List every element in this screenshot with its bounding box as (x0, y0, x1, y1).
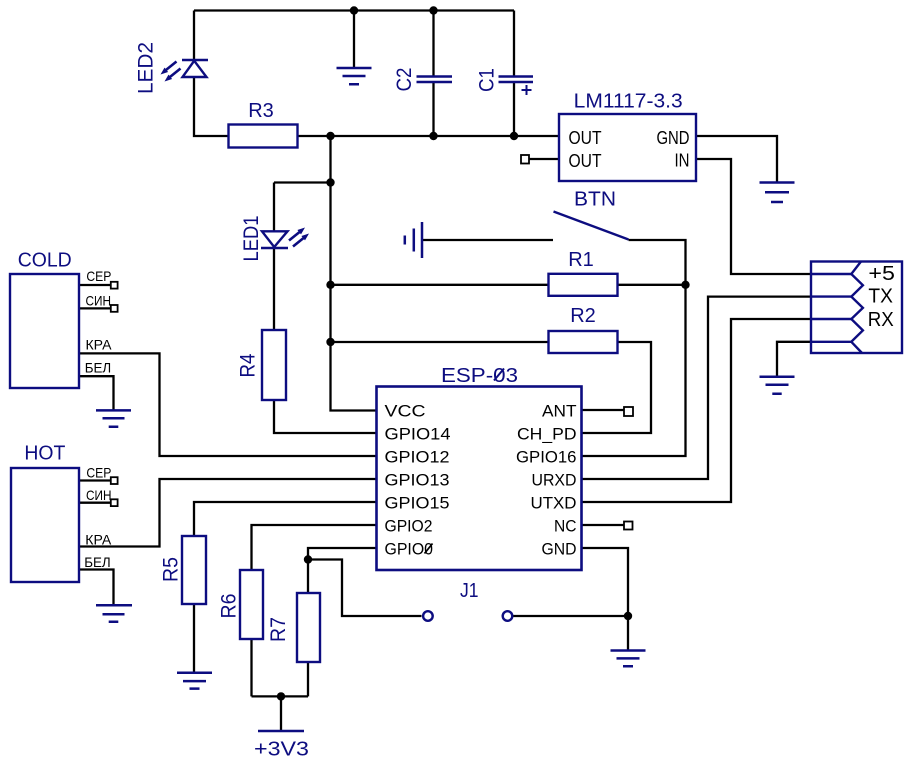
pin square COLD SIN (111, 305, 118, 312)
wire R3 right to rail (298, 135, 560, 137)
pin square NC (624, 522, 633, 530)
pin J1 circle right (503, 611, 513, 621)
svg-text:БЕЛ: БЕЛ (85, 360, 112, 376)
svg-text:+5: +5 (868, 263, 895, 285)
wire R6-R7 bottom join (252, 695, 309, 697)
svg-text:GPIO14: GPIO14 (385, 425, 451, 444)
wire R7 bottom (307, 662, 309, 696)
svg-text:GPIO0: GPIO0 (385, 540, 434, 559)
svg-text:GPIO13: GPIO13 (385, 471, 450, 490)
svg-text:GPIO16: GPIO16 (516, 448, 577, 467)
wire GPIO2 to R6 (252, 525, 377, 570)
wire BTN left contact (422, 239, 553, 241)
wire BTN right to GPIO16 (582, 240, 686, 456)
node rail / C1 bottom (510, 132, 518, 140)
svg-text:R1: R1 (568, 249, 594, 271)
node rail / C2 bottom (429, 132, 437, 140)
wire ESP GND down (582, 548, 629, 616)
capacitor C2 (417, 77, 453, 83)
wire LED2 top (193, 11, 195, 61)
wire LM1117 GND to ground (696, 136, 777, 183)
svg-text:R4: R4 (237, 353, 260, 377)
wire LED2 bottom to R3 row (194, 77, 229, 136)
ground LM1117 (760, 183, 795, 203)
wire COLD SIN stub (79, 307, 111, 309)
wire R6 bottom (250, 639, 252, 696)
svg-text:LM1117-3.3: LM1117-3.3 (574, 91, 683, 113)
connector HOT box (11, 468, 79, 582)
wire top rail (194, 9, 514, 11)
svg-text:GND: GND (657, 128, 690, 148)
svg-text:+3V3: +3V3 (254, 739, 309, 761)
svg-text:ANT: ANT (542, 402, 577, 421)
svg-text:TX: TX (868, 286, 893, 308)
capacitor C1 (499, 77, 534, 96)
node rail / LED1 branch (326, 178, 334, 186)
ground connector pin4 (760, 377, 795, 394)
ground BTN left-facing (405, 222, 422, 258)
wire GND junction to J1 circle (513, 615, 628, 617)
svg-text:BTN: BTN (574, 189, 616, 211)
resistor R7 (297, 593, 320, 662)
unconnected pin squares (111, 155, 633, 530)
wire HOT BEL to ground (79, 570, 114, 606)
pin square COLD SER (111, 282, 118, 289)
resistor R3 (229, 125, 298, 148)
connector +5/TX/RX box (811, 262, 902, 354)
node ESP GND / J1 / ground (624, 612, 632, 620)
wire C2 top (432, 11, 434, 77)
wire LM1117 OUT2 stub (529, 158, 559, 160)
pin square HOT SER (111, 477, 118, 484)
node rail / R1 (326, 281, 334, 289)
wire connector pin4 to ground (777, 342, 811, 377)
pin J1 circle left (423, 611, 433, 621)
node top rail / C2 (429, 6, 437, 14)
svg-text:GPIO12: GPIO12 (385, 448, 450, 467)
ground top (337, 68, 372, 84)
wire GPIO0 jumper branch (308, 560, 422, 617)
ground COLD BEL (96, 410, 131, 426)
wire vertical rail x330 to VCC (331, 136, 377, 411)
node R1 right / BTN (681, 281, 689, 289)
wire C2 bottom (432, 82, 434, 136)
svg-text:C1: C1 (476, 68, 499, 92)
svg-text:R3: R3 (248, 100, 274, 122)
wire GPIO15 to R5 (194, 502, 377, 536)
svg-text:СИН: СИН (86, 487, 112, 503)
svg-text:СЕР: СЕР (86, 465, 111, 481)
wire GPIO12 to COLD KRA (79, 353, 377, 456)
wire NC stub (582, 524, 625, 526)
svg-text:LED1: LED1 (240, 216, 263, 262)
svg-text:HOT: HOT (24, 443, 65, 465)
wire C1 top (513, 11, 515, 77)
svg-text:R6: R6 (218, 594, 241, 619)
svg-text:OUT: OUT (569, 151, 602, 171)
wire +3V3 drop (280, 696, 282, 730)
wire R2 right to CH_PD (582, 342, 652, 433)
wire RX to UTXD (582, 319, 812, 502)
connector COLD box (10, 274, 79, 388)
svg-text:COLD: COLD (18, 250, 72, 272)
resistor R5 (182, 536, 206, 604)
wire TX to URXD (582, 297, 812, 479)
svg-text:URXD: URXD (532, 471, 577, 490)
resistor R4 (262, 330, 286, 400)
pin square LM1117 OUT2 (521, 155, 529, 164)
svg-text:ESP-03: ESP-03 (441, 365, 518, 387)
slash in GPIO0 zero (425, 544, 433, 554)
svg-text:КРА: КРА (85, 532, 112, 548)
node rail / vertical rail (326, 132, 334, 140)
wire R1 left (331, 284, 549, 286)
node rail / R2 (326, 338, 334, 346)
pin square ANT (624, 407, 633, 416)
wire HOT SIN stub (79, 502, 111, 504)
svg-text:NC: NC (554, 517, 577, 536)
svg-text:OUT: OUT (569, 128, 602, 148)
power +3V3 bar (258, 730, 304, 733)
ground HOT BEL (96, 605, 132, 622)
svg-text:C2: C2 (393, 68, 416, 92)
wire COLD SER stub (79, 284, 111, 286)
svg-text:СИН: СИН (86, 293, 112, 309)
regulator U1 LM1117-3.3 box (559, 114, 696, 181)
ground R5 (177, 673, 212, 689)
wire GPIO13 to HOT KRA (79, 479, 377, 547)
wire GPIO0 (308, 548, 377, 560)
wire ground drop top (353, 11, 355, 69)
node GPIO0 / R7 / jumper (304, 555, 312, 563)
svg-text:R5: R5 (160, 557, 183, 582)
svg-text:RX: RX (868, 309, 894, 331)
svg-text:БЕЛ: БЕЛ (84, 554, 111, 570)
wire ANT stub (582, 409, 625, 411)
node top rail / ground (350, 6, 358, 14)
svg-text:R2: R2 (570, 305, 596, 327)
svg-text:КРА: КРА (86, 337, 113, 353)
resistor R6 (240, 570, 263, 639)
resistor R2 (549, 331, 618, 353)
svg-text:СЕР: СЕР (86, 268, 111, 284)
node R6 R7 / +3V3 (277, 692, 285, 700)
svg-text:GPIO15: GPIO15 (385, 494, 450, 513)
slash in ESP-03 zero (494, 369, 504, 381)
svg-text:GND: GND (542, 540, 577, 559)
module ESP-03 box (377, 387, 582, 571)
svg-text:UTXD: UTXD (531, 494, 577, 513)
wire R1 right (618, 284, 686, 286)
ground ESP GND (611, 651, 646, 667)
LED D2 symbol (161, 60, 209, 82)
resistor R1 (549, 274, 618, 296)
wire GND junction to ground (627, 616, 629, 651)
svg-text:VCC: VCC (385, 402, 426, 421)
wire junction to R7 top (307, 560, 309, 594)
wire LM1117 IN to +5 (696, 159, 811, 274)
wire COLD BEL to ground (79, 376, 114, 410)
wire C1 bottom (513, 82, 515, 136)
pin square HOT SIN (111, 499, 118, 506)
svg-text:GPIO2: GPIO2 (385, 517, 433, 536)
LED D1 symbol (261, 228, 309, 249)
wire R2 left (331, 341, 549, 343)
wire R5 bottom to ground (193, 604, 195, 673)
wire HOT SER stub (79, 479, 111, 481)
svg-text:LED2: LED2 (135, 42, 158, 94)
wire R4 bottom to GPIO14 (274, 400, 377, 433)
svg-text:CH_PD: CH_PD (517, 425, 577, 444)
switch BTN blade (554, 212, 629, 240)
svg-text:R7: R7 (267, 617, 290, 642)
svg-text:IN: IN (675, 151, 690, 171)
svg-text:J1: J1 (460, 580, 479, 602)
wire LED1 branch (274, 183, 331, 331)
